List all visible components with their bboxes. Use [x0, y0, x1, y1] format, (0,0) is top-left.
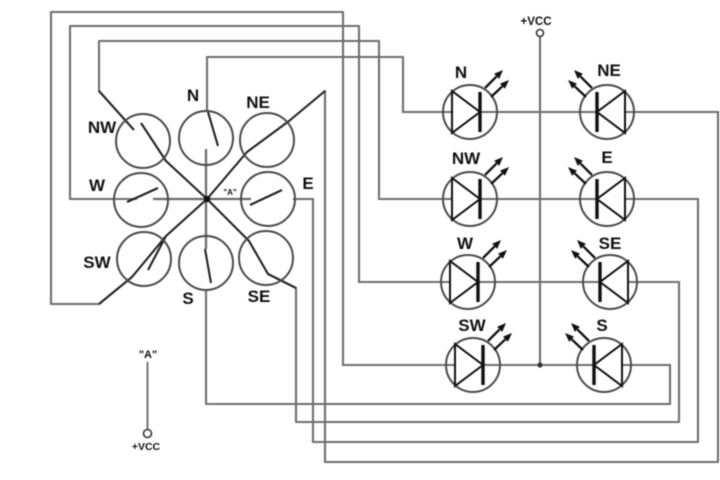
- svg-text:S: S: [596, 316, 607, 335]
- svg-text:"A": "A": [223, 188, 237, 197]
- svg-text:SW: SW: [83, 253, 111, 272]
- svg-text:N: N: [455, 63, 467, 82]
- svg-text:SE: SE: [248, 287, 271, 306]
- svg-text:NE: NE: [597, 61, 621, 80]
- svg-text:E: E: [302, 174, 313, 193]
- svg-text:W: W: [457, 234, 474, 253]
- svg-text:SE: SE: [599, 234, 622, 253]
- svg-text:+VCC: +VCC: [521, 16, 552, 28]
- svg-text:N: N: [187, 86, 199, 105]
- svg-text:E: E: [601, 148, 612, 167]
- svg-text:W: W: [89, 176, 106, 195]
- svg-text:+VCC: +VCC: [132, 441, 161, 453]
- svg-text:"A": "A": [139, 349, 157, 361]
- svg-text:SW: SW: [458, 316, 486, 335]
- svg-text:NW: NW: [88, 118, 117, 137]
- svg-text:NW: NW: [452, 149, 481, 168]
- svg-text:S: S: [182, 289, 193, 308]
- svg-text:NE: NE: [246, 93, 270, 112]
